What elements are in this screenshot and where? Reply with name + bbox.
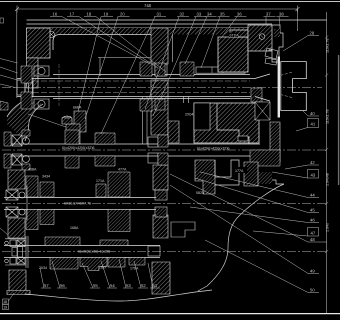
housing top wall hatch [27,28,249,35]
gear cluster right of shaft III [195,160,215,194]
balloon 28 [283,36,319,51]
right items 42-48 [170,165,327,242]
mid wall bearing spindle [155,64,167,76]
spindle right bearing bottom [255,102,270,120]
gears below shaft III [26,210,38,230]
spindle bore lines [33,81,250,93]
shaft III left bearing [6,186,27,220]
svg-text:32: 32 [180,12,185,17]
svg-text:110x1.78: 110x1.78 [326,38,330,53]
extension line left [16,9,18,98]
svg-text:3434: 3434 [42,175,50,179]
screw in bearing housing [259,34,265,40]
cavity outline [53,35,151,51]
casting bottom hatch [250,150,280,166]
spindle left end [17,79,33,97]
left edge leader stubs [0,59,18,236]
cavity left (black) [53,35,151,62]
right items 49 50 [170,185,319,293]
bottom foot hatched bar [7,291,30,295]
housing top wall lines [27,20,327,28]
svg-text:408A: 408A [63,116,72,120]
shaft III right bearing [155,190,167,217]
balloon 38 [277,17,289,26]
svg-text:45: 45 [310,208,315,213]
balloon 34 [185,17,217,64]
svg-text:28: 28 [310,31,315,36]
gear teeth below shaft II [65,156,115,168]
dimension line 748 [15,6,300,99]
gear 3851 [96,133,106,144]
svg-text:50: 50 [310,288,315,293]
left edge wall corner blob [0,101,8,110]
shaft IV centerline [2,251,327,253]
bearing cap steps [269,25,283,62]
spindle nose taper [255,74,270,101]
spindle bearing caps hatch [21,66,32,83]
svg-text:20: 20 [120,12,125,17]
svg-text:1.04x: 1.04x [326,223,330,232]
balloon 19 [78,17,113,112]
gear web vertical [99,58,101,77]
svg-text:54: 54 [110,283,115,288]
balloon 17 [67,17,158,68]
balloon 35 [201,17,230,68]
svg-text:748: 748 [144,3,152,8]
left wall hatch mid [27,58,39,88]
shaft III centerline [2,203,327,205]
svg-text:46: 46 [310,218,315,223]
shaft II right bearing [148,137,158,163]
svg-text:6(x42)6(x42)6(x32)6: 6(x42)6(x42)6(x32)6 [62,146,95,150]
svg-text:19: 19 [104,12,109,17]
svg-text:37: 37 [266,12,271,17]
svg-text:53: 53 [126,283,131,288]
cropped left balloon [0,18,4,23]
balloon 31 [101,17,166,134]
balloon 33 [153,17,206,116]
bottom frame border [0,313,340,315]
svg-text:38: 38 [279,12,284,17]
shaft IV body [4,246,160,258]
middle wall hatch [151,28,168,64]
svg-text:5823: 5823 [196,191,204,195]
screw at top wall [49,32,55,38]
tapered rollers [265,48,278,65]
svg-text:668A: 668A [73,106,82,110]
svg-text:6(x42)6(x42)6(x32)6: 6(x42)6(x42)6(x32)6 [197,147,230,151]
svg-text:35: 35 [220,12,225,17]
lower stepped outline left of S-curve [171,222,195,237]
balloon 18 [84,17,166,72]
cavity floor line [98,57,151,59]
svg-text:408A: 408A [28,168,37,172]
svg-text:31: 31 [157,12,162,17]
hatch right of big gear top [251,88,262,102]
bottom balloons 57-51 [40,259,160,288]
svg-text:57: 57 [44,283,49,288]
shaft III body [4,198,158,210]
svg-text:168A: 168A [70,226,79,230]
svg-text:42: 42 [310,160,315,165]
spindle top parts [140,62,152,76]
svg-text:47: 47 [311,231,316,236]
gears above shaft IV [45,237,80,246]
balloon 36 [222,17,247,37]
svg-text:34: 34 [207,12,212,17]
svg-text:56: 56 [60,283,65,288]
svg-text:43: 43 [311,173,316,178]
big block lower [194,103,259,143]
svg-text:55: 55 [93,283,98,288]
svg-text:6X36.5X40X7.75: 6X36.5X40X7.75 [64,202,91,206]
shaft II body [4,144,260,156]
svg-text:33: 33 [197,12,202,17]
svg-text:175A: 175A [130,267,139,271]
svg-text:51: 51 [153,283,158,288]
gear teeth above shaft II [65,130,115,144]
shaft IV right end bearing [148,246,160,256]
right item 40 [296,116,319,131]
spindle left bearing top [34,66,49,109]
svg-text:40: 40 [310,111,315,116]
balloon 37 [264,17,276,25]
extension line right [297,9,299,31]
svg-text:2X04: 2X04 [185,113,193,117]
svg-text:48: 48 [310,237,315,242]
spindle right bearing housing [248,25,272,51]
wall stub left of big block [168,121,179,143]
left wall S-curve panel [7,99,43,141]
leader to 408A hump [28,114,66,127]
big S-curve casting outline [198,184,284,291]
chuck body [281,62,307,111]
clutch rod verticals [143,97,148,145]
svg-text:110x1.78: 110x1.78 [326,109,330,124]
svg-text:477A: 477A [118,168,127,172]
svg-text:6(x36)6(x36)-6(x3B): 6(x36)6(x36)-6(x3B) [78,250,110,254]
balloon 20 [85,17,130,119]
svg-text:49: 49 [310,269,315,274]
left wall hatch between shafts II-III [8,170,25,189]
svg-text:18: 18 [3,300,7,304]
big gear 6TDA top [218,37,248,72]
left wall hatch between shafts III-IV [8,218,25,238]
left bottom wall hatch [9,270,26,294]
balloon 32 [145,17,189,109]
svg-text:1.04x48: 1.04x48 [326,173,330,186]
gears above shaft III [26,176,38,197]
right cavity edge [172,35,174,63]
svg-text:52: 52 [141,283,146,288]
svg-text:17: 17 [70,12,75,17]
left wall hatch upper [27,28,51,58]
gears below shaft IV [50,258,78,270]
spindle body [17,75,255,99]
chuck thread marks [281,72,293,98]
gear 668A block [74,111,86,132]
bolt centerline [58,64,60,106]
spindle flange face [278,57,280,118]
shaft II left bearing [12,135,29,165]
svg-text:16: 16 [53,12,58,17]
svg-text:6TDA: 6TDA [230,34,240,38]
casting steps right of spindle [256,166,284,184]
shaft II centerline [2,149,327,151]
svg-text:18: 18 [87,12,92,17]
right frame vertical line [326,12,328,313]
vertical dim ticks [325,36,328,254]
shaft IV left bearing [5,236,28,268]
part 408A hump [62,116,72,124]
balloon 16 [50,17,150,64]
label 177A [234,167,247,173]
svg-text:41: 41 [311,122,316,127]
svg-text:44: 44 [310,193,315,198]
bottom wavy bed line [25,290,212,301]
boxed items 18 19 [3,293,15,310]
svg-text:177A: 177A [235,169,244,173]
svg-text:36: 36 [237,12,242,17]
top frame edge [0,1,340,3]
spindle centerline [2,87,322,89]
svg-text:171A: 171A [96,179,105,183]
40 leader [303,111,308,116]
svg-text:19: 19 [3,306,7,310]
right edge faint bar [338,55,340,185]
